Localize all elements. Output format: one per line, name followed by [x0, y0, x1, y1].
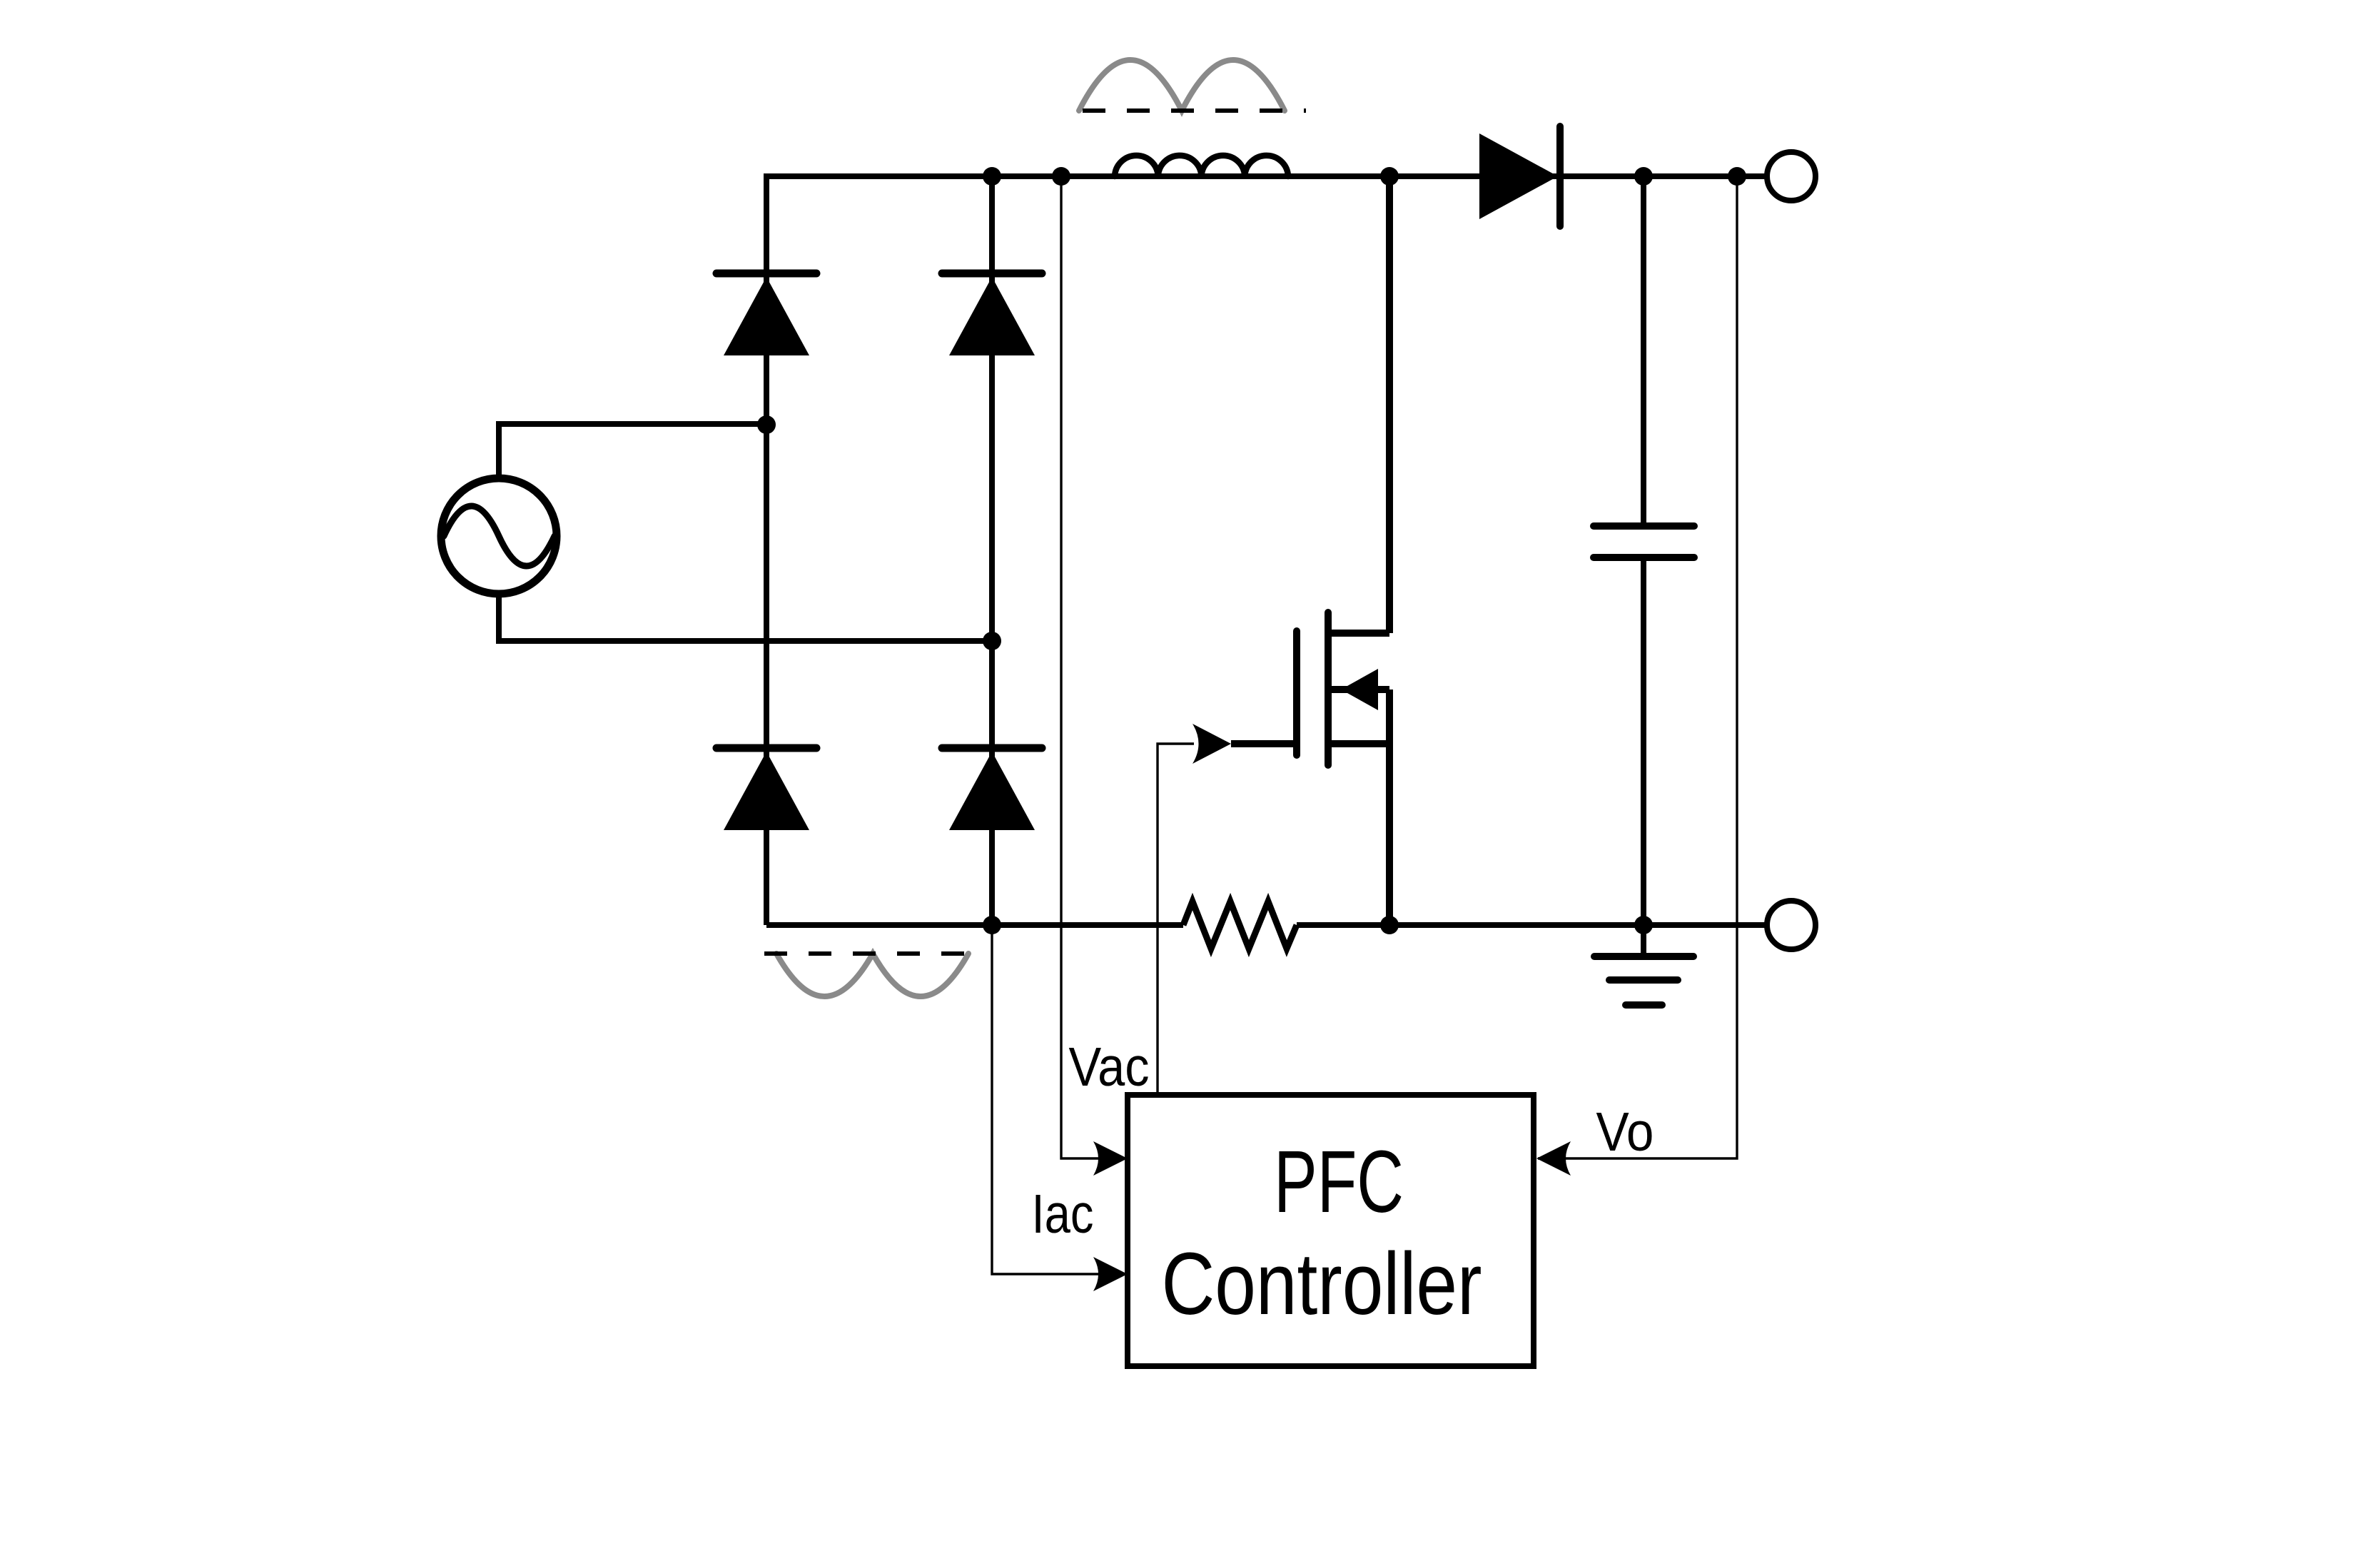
- label Vo: [1596, 1101, 1654, 1163]
- AC source V1: [441, 478, 557, 594]
- arrowhead Vo input: [1536, 1141, 1571, 1176]
- wire Q1 source to bottom bus: [1386, 689, 1393, 925]
- node Iac junction on bottom bus: [983, 916, 1001, 934]
- wire bottom bus left segment: [766, 922, 1183, 928]
- svg-text:PFC: PFC: [1274, 1133, 1404, 1231]
- wire top bus: [766, 173, 1767, 179]
- wire Vac sense: [1061, 176, 1126, 1158]
- node source junction on bottom bus: [1380, 916, 1399, 934]
- gate drive arrowhead: [1192, 724, 1231, 764]
- inductor L1: [1115, 156, 1288, 176]
- node ground junction on bottom bus: [1634, 916, 1653, 934]
- label Vac: [1069, 1036, 1150, 1098]
- node top bus above D2: [983, 167, 1001, 186]
- svg-text:Iac: Iac: [1032, 1183, 1094, 1245]
- wire bottom bus right segment: [1297, 922, 1767, 928]
- label Controller: [1162, 1236, 1482, 1333]
- diode D5 boost: [1479, 126, 1560, 226]
- arrowhead Iac input: [1093, 1257, 1128, 1291]
- node top bus Vo tap: [1728, 167, 1746, 186]
- terminal output negative: [1767, 901, 1816, 949]
- diode D4 bottom-right: [942, 748, 1042, 830]
- wire Iac sense: [992, 925, 1126, 1274]
- svg-text:Vac: Vac: [1069, 1036, 1150, 1098]
- transistor Q1 MOSFET: [1297, 612, 1389, 765]
- wire Q1 thick gate lead: [1231, 740, 1298, 747]
- diode D1 top-left: [716, 273, 816, 355]
- wire left bridge vertical: [764, 173, 769, 925]
- node top bus capacitor tap: [1634, 167, 1653, 186]
- svg-text:Controller: Controller: [1162, 1236, 1482, 1333]
- wire C1 top lead: [1641, 176, 1646, 522]
- node bridge right midpoint: [983, 632, 1001, 650]
- arrowhead Vac input: [1093, 1141, 1128, 1176]
- wire AC source top lead: [499, 424, 766, 480]
- node top bus drain tap: [1380, 167, 1399, 186]
- wire C1 bottom lead: [1641, 561, 1646, 925]
- wire Q1 drain to top bus: [1386, 176, 1393, 633]
- annotation inductor current waveform (gray rectified sine): [1079, 60, 1285, 111]
- diode D2 top-right: [942, 273, 1042, 355]
- PFC controller U1 box: [1128, 1095, 1534, 1366]
- annotation dashed baseline top: [1083, 108, 1306, 113]
- wire AC source bottom lead: [499, 592, 992, 641]
- resistor R1 sense: [1183, 901, 1297, 949]
- terminal output positive: [1767, 152, 1816, 201]
- svg-text:Vo: Vo: [1596, 1101, 1654, 1163]
- label PFC: [1274, 1133, 1404, 1231]
- annotation dashed baseline bottom: [764, 951, 976, 956]
- wire right bridge vertical: [989, 173, 995, 925]
- ground: [1594, 925, 1693, 1005]
- wire Vo sense: [1538, 176, 1737, 1158]
- node bridge left midpoint: [757, 415, 776, 434]
- label Iac: [1032, 1183, 1094, 1245]
- annotation input current waveform (gray negative humps): [776, 954, 968, 996]
- wire gate drive from controller: [1158, 744, 1194, 1095]
- capacitor C1: [1594, 526, 1694, 557]
- node top bus Vac tap: [1052, 167, 1070, 186]
- diode D3 bottom-left: [716, 748, 816, 830]
